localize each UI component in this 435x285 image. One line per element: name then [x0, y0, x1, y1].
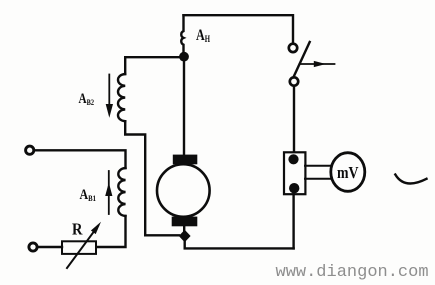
junction diamond: [179, 230, 191, 242]
svg-text:mV: mV: [337, 163, 359, 182]
motor M armature circle: [157, 164, 210, 217]
wire diamond to bottom brush: [183, 226, 185, 231]
wire top run to switch: [184, 15, 294, 43]
bottom wire run: [185, 241, 294, 248]
inductor AH: [181, 15, 183, 53]
svg-text:AB1: AB1: [80, 187, 97, 203]
wire T1 to AB1 top: [34, 150, 125, 168]
arrow AB1 (up): [108, 171, 110, 214]
connector block to meter (double line): [305, 165, 332, 167]
wire resistor to T2: [37, 246, 62, 248]
terminal T1 (top-left): [26, 146, 34, 154]
switch S contacts: [289, 44, 297, 52]
terminal T2 (bottom-left): [29, 243, 37, 251]
wire block bottom down: [292, 194, 294, 248]
svg-text:R: R: [72, 220, 83, 239]
wire AH node to motor: [183, 60, 185, 155]
block contact dot top: [288, 154, 298, 164]
inductor AB2: [118, 74, 125, 121]
wire AB1 bottom to resistor: [96, 216, 126, 247]
inductor AB1: [118, 168, 125, 216]
mV terminal block: [284, 152, 305, 194]
wire AB2 bottom run to diamond junction: [125, 121, 179, 235]
switch actuation arrow: [300, 63, 335, 65]
resistor R (rheostat box): [62, 241, 96, 254]
motor top brush: [173, 155, 198, 165]
block contact dot bottom: [289, 183, 299, 193]
switch blade: [293, 42, 309, 77]
arrow AB2 (down): [108, 75, 110, 106]
svg-text:www.diangon.com: www.diangon.com: [276, 263, 429, 282]
rheostat arrow: [67, 226, 98, 268]
motor bottom brush: [172, 217, 198, 227]
arc decoration bottom-right: [395, 175, 426, 184]
wire switch to terminal block: [293, 86, 295, 153]
svg-text:AB2: AB2: [79, 91, 95, 107]
junction dot (AH node): [179, 52, 189, 62]
meter mV: [331, 153, 365, 192]
svg-text:AH: AH: [196, 27, 210, 44]
wire AB2 top run (dot to coil): [125, 57, 183, 74]
